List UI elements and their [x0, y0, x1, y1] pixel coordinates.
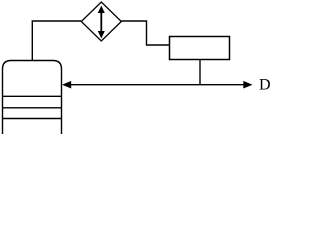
svg-text:D: D	[259, 77, 271, 94]
valve diamond	[81, 2, 121, 41]
tank line 2	[3, 107, 62, 109]
wire valve to box	[121, 21, 169, 45]
tank line 3	[3, 118, 62, 120]
box	[170, 37, 230, 60]
wire tank-top to valve	[32, 21, 81, 61]
bus double-headed arrow	[62, 81, 253, 89]
wire box to bus	[199, 60, 201, 85]
container shape (rounded-top open-bottom tank)	[3, 61, 62, 135]
valve double arrow	[98, 6, 105, 39]
tank line 1	[3, 95, 62, 97]
